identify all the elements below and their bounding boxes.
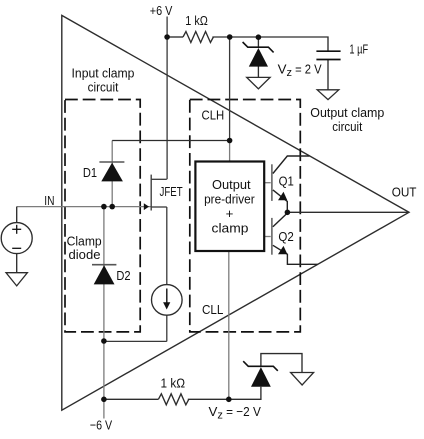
svg-text:CLL: CLL [202, 302, 223, 317]
svg-text:1 µF: 1 µF [349, 41, 368, 56]
svg-text:Vz = −2 V: Vz = −2 V [209, 404, 261, 421]
svg-text:circuit: circuit [332, 119, 362, 134]
svg-text:Q1: Q1 [279, 175, 294, 189]
svg-text:Vz = 2 V: Vz = 2 V [278, 61, 322, 78]
svg-text:JFET: JFET [160, 184, 183, 199]
svg-text:Output clamp: Output clamp [310, 105, 384, 120]
svg-text:clamp: clamp [212, 221, 249, 236]
svg-text:D1: D1 [83, 166, 97, 180]
svg-text:+: + [226, 206, 234, 221]
svg-text:OUT: OUT [392, 185, 417, 200]
svg-text:circuit: circuit [88, 79, 119, 94]
svg-text:1 kΩ: 1 kΩ [161, 375, 186, 390]
svg-text:−6 V: −6 V [90, 417, 112, 432]
svg-text:+6 V: +6 V [150, 3, 173, 18]
svg-text:Output: Output [212, 177, 251, 192]
svg-text:1 kΩ: 1 kΩ [185, 13, 208, 28]
svg-text:Q2: Q2 [278, 230, 293, 244]
svg-text:Clamp: Clamp [67, 234, 102, 248]
svg-text:IN: IN [44, 194, 54, 208]
svg-text:D2: D2 [116, 269, 130, 283]
svg-text:pre-driver: pre-driver [204, 191, 255, 206]
svg-text:diode: diode [69, 248, 101, 262]
svg-text:CLH: CLH [202, 108, 225, 123]
